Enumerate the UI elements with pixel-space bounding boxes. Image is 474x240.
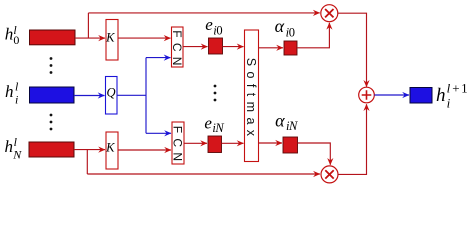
alpha_i0 square — [284, 41, 297, 55]
svg-text:h: h — [5, 82, 14, 101]
wire top rail to multiply node — [88, 12, 319, 14]
wire h_N rect to K2 with arrowhead — [74, 149, 105, 151]
svg-text:h: h — [436, 85, 446, 106]
svg-text:l: l — [15, 80, 19, 94]
svg-text:Softmax: Softmax — [244, 58, 258, 142]
K box bottom (K2) — [105, 132, 118, 169]
K box top (K1) — [105, 20, 118, 61]
svg-text:+1: +1 — [452, 80, 469, 95]
svg-text:0: 0 — [216, 24, 222, 38]
input vector h_0 rectangle — [30, 30, 76, 45]
wire h_0 rect to K1 with arrowhead — [75, 37, 105, 39]
svg-text:0: 0 — [13, 33, 19, 47]
label h_N^l — [5, 135, 23, 162]
wire branch down from h_N wire — [86, 150, 88, 174]
wire Q to FCN2 — [146, 132, 171, 134]
svg-text:α: α — [275, 110, 285, 130]
svg-text:N: N — [12, 148, 22, 162]
svg-text:h: h — [5, 137, 14, 156]
svg-text:l: l — [447, 80, 451, 95]
wire branch up from h_0 wire — [87, 13, 89, 38]
label h_0^l — [5, 23, 20, 47]
wire plus node to output rectangle (blue) — [374, 94, 409, 96]
e_i0 square — [209, 38, 223, 54]
label e_iN — [204, 113, 224, 135]
svg-text:K: K — [105, 31, 115, 45]
svg-text:h: h — [5, 25, 14, 44]
wire e_i0 to softmax — [223, 46, 244, 48]
wire Q output horizontal — [117, 94, 146, 96]
multiply node bottom (circle with X) — [321, 166, 338, 183]
Softmax box — [244, 30, 259, 162]
wire blue rect to Q with arrowhead — [74, 95, 105, 97]
svg-text:i: i — [447, 96, 451, 111]
svg-text:α: α — [275, 16, 285, 36]
svg-text:e: e — [204, 113, 212, 132]
FCN box top (FCN1) — [170, 27, 184, 71]
wire alpha_iN right then down into multiply node — [298, 143, 331, 165]
label h_i^l — [5, 80, 19, 107]
wire K1 to FCN1 — [118, 37, 171, 39]
vertical dots between h_i and h_N — [50, 114, 53, 131]
svg-text:e: e — [205, 15, 213, 34]
wire Q to FCN1 — [146, 57, 171, 59]
label e_i0 — [205, 15, 222, 38]
Q box — [106, 77, 118, 115]
wire FCN2 to e_iN square — [184, 142, 207, 144]
label alpha_iN — [275, 110, 298, 133]
wire K2 to FCN2 — [118, 149, 171, 151]
output vector rectangle (blue) — [410, 88, 432, 104]
wire alpha_i0 right then up into multiply node — [297, 23, 329, 48]
wire bottom rail to multiply node — [87, 173, 320, 175]
svg-text:N: N — [214, 121, 224, 135]
input vector h_N rectangle — [29, 142, 74, 157]
plus node (circle with +) — [359, 87, 375, 103]
svg-text:FCN: FCN — [170, 30, 184, 71]
wire softmax to alpha_iN square — [259, 142, 283, 144]
wire softmax to alpha_i0 square — [259, 47, 284, 49]
wire FCN1 to e_i0 square — [183, 46, 208, 48]
wire e_iN to softmax — [222, 142, 244, 144]
multiply node top (circle with X) — [321, 5, 338, 22]
label h_i^{l+1} — [436, 80, 469, 110]
svg-text:0: 0 — [289, 25, 295, 39]
svg-text:Q: Q — [106, 86, 115, 100]
alpha_iN square — [283, 137, 298, 153]
wire multiply top to plus node — [338, 13, 367, 87]
svg-text:K: K — [105, 141, 115, 155]
FCN box bottom (FCN2) — [170, 122, 184, 166]
svg-text:i: i — [15, 93, 18, 107]
label alpha_i0 — [275, 16, 295, 39]
vertical dots between e squares — [214, 85, 217, 102]
vertical dots between h_0 and h_i — [50, 57, 53, 74]
svg-text:N: N — [288, 119, 298, 133]
wire multiply bottom to plus node — [338, 104, 367, 174]
wire Q split vertical — [145, 58, 147, 134]
svg-text:FCN: FCN — [170, 126, 184, 167]
e_iN square — [208, 136, 222, 153]
input vector h_i rectangle (blue) — [30, 87, 75, 103]
